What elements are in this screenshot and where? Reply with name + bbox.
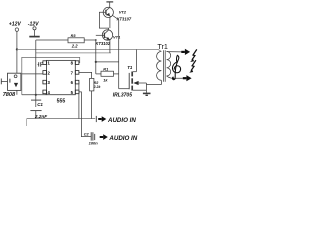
resistor R3 [36,33,96,48]
capacitor C1 [30,100,47,119]
svg-text:IRL3705: IRL3705 [113,92,132,98]
pin 2 [43,71,51,76]
core [162,50,164,82]
wire pin 5 down to C2 [79,92,91,137]
svg-text:VT1: VT1 [113,35,121,40]
pin 3 [43,80,51,85]
svg-text:555: 555 [57,98,66,104]
svg-text:AUDIO IN: AUDIO IN [107,117,136,124]
wire VT1 emitter down to rail B [109,40,111,53]
svg-text:KT3102: KT3102 [96,41,111,46]
arrow audio in 2 [100,134,138,142]
wire rail C 8V to pin 8 [22,57,80,94]
power bar top [106,1,113,3]
regulator 7808 [3,73,21,98]
svg-text:2.2: 2.2 [71,43,78,48]
connector tick audio 1 [95,116,97,122]
primary winding [157,51,162,80]
wire -12V stem [34,30,36,36]
resistor R1 [96,66,119,82]
wire audio bus horizontal [27,118,96,120]
svg-text:2.2k: 2.2k [93,85,102,89]
treble clef [172,55,180,79]
wire stub down-left [26,119,28,126]
svg-text:+12V: +12V [9,22,22,28]
transistor T1 IRL3705 [113,65,147,98]
transistor VT1 KT3102 [96,30,122,46]
wire pin 6 down [78,82,80,119]
capacitor C2 [84,132,98,145]
pin 1 [42,61,51,66]
terminal +12V [9,22,22,32]
svg-text:VT2: VT2 [119,9,127,14]
secondary winding [167,51,171,76]
svg-text:AUDIO IN: AUDIO IN [108,135,137,142]
wire 7808 output bottom [16,90,18,94]
wire pin 7 to R2 [79,72,92,78]
wire VT1 collector to VT2 base [99,12,108,30]
svg-text:-12V: -12V [28,22,39,28]
wire vertical V1 from R3 left down to C1 [35,40,37,100]
IC 555 [47,60,76,104]
wire 7808 input tick [1,79,7,85]
node V1 junction [35,94,37,96]
arrow HV bottom [183,75,192,81]
wire rail A +12V horizontal [17,48,136,50]
wire gate feed horizontal [96,61,119,63]
ground bar -12V [29,36,39,38]
terminal -12V [28,22,39,30]
wire +12V down to 7808 [16,31,18,73]
wire VT2 collector down to gate [113,16,119,89]
pin 7 [71,71,79,76]
node +12V rail junction [16,48,18,50]
connector tick audio 2 [94,134,96,140]
wire rail B horizontal [36,52,111,54]
wire VT2 emitter to top bar [109,2,111,8]
wire 8V to pin 4 [22,94,46,95]
pin 4 [43,90,51,95]
capacitor at pin 1 [38,62,43,66]
svg-text:C1: C1 [37,102,43,107]
lightning [189,49,197,72]
wire VT2 collector down to VT1 [109,17,111,28]
pin 8 [71,61,79,66]
node riser gate junction [95,61,97,63]
arrow HV top [181,49,190,55]
pin 5 [71,90,79,95]
transformer Tr1 [157,42,171,82]
svg-text:Tr1: Tr1 [157,42,168,51]
wire riser base node [95,40,97,74]
wire secondary top out [167,51,182,53]
svg-text:R1: R1 [103,66,108,71]
wire pin 2 from riser [22,73,43,75]
wire secondary bottom out [167,76,183,78]
svg-text:7808: 7808 [3,92,16,98]
wire primary bottom to ground riser [146,80,161,84]
arrow audio in 1 [98,116,136,124]
svg-text:T1: T1 [127,65,133,70]
transistor VT2 KT3107 [103,7,132,21]
pin 6 [71,80,79,85]
wire drain riser to rail [135,49,137,71]
svg-text:R3: R3 [71,33,77,38]
wire primary top from rail [136,49,161,51]
svg-text:100n: 100n [89,141,99,146]
resistor R2 [90,78,102,118]
ground [143,83,151,95]
